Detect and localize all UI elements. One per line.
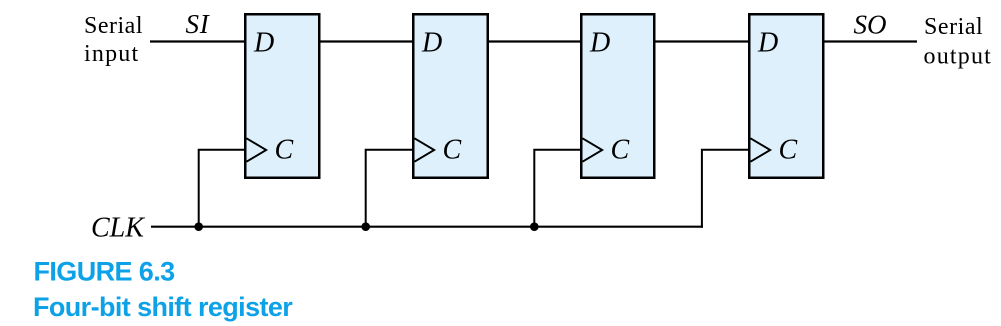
svg-text:CLK: CLK <box>91 213 145 244</box>
U1 clock edge triangle <box>247 138 267 161</box>
figure caption <box>33 257 293 323</box>
wire U2.Q to U3.D <box>488 40 581 42</box>
wire CLK riser to U1.C <box>199 150 245 227</box>
svg-text:Serial: Serial <box>84 13 143 39</box>
svg-text:C: C <box>443 135 462 166</box>
svg-text:SO: SO <box>854 9 887 39</box>
wire CLK riser to U4.C <box>702 150 749 228</box>
junction dot at U1 riser <box>194 222 203 231</box>
label: Serial input <box>84 13 143 67</box>
svg-text:Serial: Serial <box>924 14 983 40</box>
label: Serial output <box>924 14 993 69</box>
U3 clock edge triangle <box>583 138 603 161</box>
svg-text:output: output <box>924 43 993 69</box>
wire CLK riser to U3.C <box>534 150 581 227</box>
U4 clock edge triangle <box>751 138 771 161</box>
svg-text:Four-bit shift register: Four-bit shift register <box>33 292 293 322</box>
junction dot at U3 riser <box>530 222 539 231</box>
svg-text:D: D <box>421 28 442 59</box>
D flip-flop U2 body <box>413 14 488 178</box>
wire U4.Q to SO <box>824 40 918 42</box>
wire U3.Q to U4.D <box>655 40 750 42</box>
svg-text:FIGURE 6.3: FIGURE 6.3 <box>34 257 176 287</box>
D flip-flop U1 body <box>245 14 319 178</box>
wire CLK bus horizontal <box>151 226 703 228</box>
junction dot at U2 riser <box>361 222 370 231</box>
wire U1.Q to U2.D <box>320 40 414 42</box>
D flip-flop U4 body <box>749 14 823 178</box>
svg-text:input: input <box>84 41 139 67</box>
svg-text:C: C <box>275 135 294 166</box>
wire CLK riser to U2.C <box>366 150 413 227</box>
U2 clock edge triangle <box>415 138 435 161</box>
wire SI to U1.D <box>150 40 245 42</box>
svg-text:C: C <box>611 135 630 166</box>
svg-text:SI: SI <box>186 9 211 39</box>
svg-text:D: D <box>589 28 610 59</box>
svg-text:C: C <box>779 135 798 166</box>
svg-text:D: D <box>253 28 274 59</box>
svg-text:D: D <box>757 28 778 59</box>
D flip-flop U3 body <box>581 14 654 178</box>
